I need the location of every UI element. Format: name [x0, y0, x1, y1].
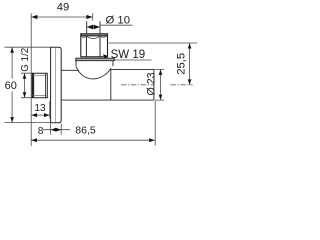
valve: bottom edge body+cylinder: [61, 99, 154, 101]
dimension O23: [146, 69, 165, 100]
svg-text:60: 60: [5, 80, 17, 92]
wire: pipe-axis extension line (top): [92, 13, 94, 20]
valve: handle cylinder O23: [111, 69, 154, 100]
valve: wall rosette: [51, 47, 62, 123]
valve: inlet top edge with chamfer: [61, 69, 79, 71]
dimension O10: [87, 15, 133, 30]
dimension 13: [31, 101, 50, 119]
valve: top pipe O10: [87, 21, 100, 34]
dimension 25,5: [109, 43, 198, 85]
svg-text:SW 19: SW 19: [111, 49, 146, 61]
valve: body waist curve: [76, 66, 111, 79]
valve: flange washer under nut: [76, 58, 114, 61]
svg-text:13: 13: [34, 103, 46, 114]
svg-text:25,5: 25,5: [175, 53, 187, 75]
dimension 8: [38, 124, 70, 138]
svg-text:8: 8: [38, 126, 44, 137]
dimension 86,5: [31, 101, 155, 146]
svg-text:49: 49: [57, 2, 69, 14]
valve: G1/2 thread pipe: [32, 73, 47, 98]
svg-text:86,5: 86,5: [75, 125, 96, 137]
label SW 19: [103, 49, 152, 61]
svg-text:Ø 10: Ø 10: [106, 15, 131, 27]
valve: body right edge: [110, 68, 112, 100]
dimension 49: [31, 2, 92, 19]
svg-text:Ø 23: Ø 23: [146, 72, 158, 95]
wire: left wall extension line: [30, 13, 32, 146]
dimension G 1/2: [20, 48, 32, 98]
valve: compression nut SW19: [81, 34, 108, 57]
node: centerline axis: [121, 84, 193, 86]
svg-text:G 1/2: G 1/2: [20, 48, 31, 72]
valve: body collar: [76, 61, 113, 67]
dimension 60: [5, 47, 51, 122]
